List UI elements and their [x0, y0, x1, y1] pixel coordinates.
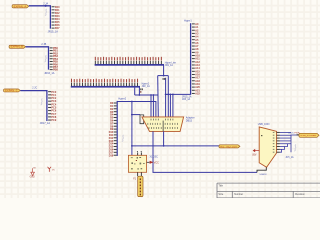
J8 pin number marks — [273, 132, 275, 153]
svg-text:Revision: Revision — [295, 193, 305, 196]
connector U2 left notch — [140, 115, 144, 124]
wire DB15 second pin down — [153, 131, 257, 172]
wires J8 to P5 — [280, 132, 299, 152]
wire drop p6 — [165, 78, 167, 117]
wire drop p4 — [157, 76, 160, 118]
no-ERC marker right — [294, 145, 296, 152]
port P4 — [219, 145, 240, 149]
power port U5V left of J8 — [255, 150, 259, 152]
U1 bottom pins — [136, 172, 139, 176]
wire P2 to J2 bus — [26, 47, 49, 70]
svg-text:VCC: VCC — [154, 161, 159, 164]
svg-text:JR2_1A: JR2_1A — [142, 85, 151, 88]
svg-text:A22: A22 — [195, 91, 200, 95]
wire drop p1 — [150, 95, 152, 117]
junction v2a — [167, 94, 169, 96]
wire drop p7 — [169, 94, 171, 117]
wire net H2 — [135, 94, 159, 96]
wire drop p2 — [152, 95, 154, 117]
header J5 body bar — [71, 86, 140, 88]
fuse F1 — [138, 176, 143, 196]
svg-text:GND: GND — [30, 177, 35, 179]
svg-text:X1 OSC: X1 OSC — [150, 156, 159, 158]
svg-text:RS_TXD_OUT: RS_TXD_OUT — [220, 146, 238, 148]
svg-text:JR17_1A: JR17_1A — [40, 122, 51, 125]
svg-text:Hyper2: Hyper2 — [118, 97, 126, 100]
port P3 — [4, 89, 21, 93]
oscillator U1 body — [128, 155, 146, 172]
title block — [217, 183, 320, 198]
port P5 — [299, 133, 319, 137]
header J2 pins — [50, 47, 59, 72]
junction w3a — [131, 145, 133, 147]
svg-text:Number: Number — [234, 193, 243, 196]
wire J6 bottom to bus — [166, 93, 191, 95]
wire J7 feeder down — [131, 102, 133, 156]
svg-text:U5V: U5V — [252, 154, 257, 156]
header J5 pins — [71, 79, 138, 86]
wire V2 — [167, 76, 169, 118]
svg-text:USB_POWER: USB_POWER — [300, 135, 316, 137]
wire net H1 — [158, 75, 169, 77]
svg-text:DB15: DB15 — [186, 119, 193, 122]
J8 pins — [277, 132, 280, 153]
J8 bottom pin bracket — [257, 167, 266, 172]
connector J8 body — [259, 127, 276, 167]
svg-text:Size: Size — [218, 193, 223, 196]
junction w3b — [163, 145, 165, 147]
svg-text:JR16_1A: JR16_1A — [44, 72, 55, 75]
svg-text:EXPAN_B: EXPAN_B — [11, 46, 24, 49]
wire P1 to J1 bus — [29, 6, 51, 29]
header J3 pins — [48, 91, 57, 122]
junction fb — [170, 94, 172, 96]
junction h2a — [139, 94, 141, 96]
header J1 pins — [52, 6, 61, 30]
svg-text:EXPAN_A: EXPAN_A — [14, 5, 27, 8]
junction h2b — [150, 94, 152, 96]
power port VCC right of U1 — [147, 161, 150, 164]
svg-text:JR3_1A: JR3_1A — [182, 98, 191, 101]
junction h2c — [153, 94, 155, 96]
connector J7 body bus — [117, 101, 118, 156]
svg-text:D18: D18 — [109, 154, 114, 157]
U1 top pins — [136, 152, 139, 155]
port P2 — [9, 45, 26, 49]
svg-text:EXPAN_C: EXPAN_C — [5, 89, 18, 92]
wire P3 to J3 bus — [20, 91, 47, 121]
header J4 pins — [95, 57, 162, 64]
wire osc net horizontal — [132, 145, 164, 147]
svg-text:VBUS: VBUS — [288, 132, 294, 134]
connector J6 body bus — [190, 23, 191, 95]
junction fc — [172, 94, 174, 96]
no-ERC marker — [45, 9, 47, 16]
power port GND — [31, 168, 35, 175]
svg-text:Title: Title — [218, 185, 223, 188]
wire DB15 bottom pin to port — [164, 131, 219, 146]
svg-text:JR1_1A: JR1_1A — [165, 64, 174, 67]
svg-text:2 JB: 2 JB — [41, 43, 46, 46]
svg-text:USB5V: USB5V — [260, 174, 268, 176]
no-ERC marker center — [122, 135, 124, 142]
svg-text:USB_CON: USB_CON — [258, 123, 270, 126]
connector U2 DB15 body — [142, 117, 184, 131]
no-ERC marker C — [41, 98, 43, 105]
net label marks — [163, 78, 164, 80]
junction j7a — [131, 101, 133, 103]
svg-text:2 JC: 2 JC — [32, 87, 37, 90]
svg-text:Hyper1: Hyper1 — [184, 20, 192, 23]
connector J7 pins — [109, 102, 117, 157]
header J4 body bar — [95, 64, 164, 66]
svg-text:JC5_1A: JC5_1A — [285, 156, 294, 159]
junction h1a — [163, 75, 165, 77]
wire D-row corner — [138, 87, 140, 95]
svg-text:PC9: PC9 — [51, 119, 56, 122]
connector J6 pins — [192, 22, 201, 96]
connector U2 pin marks — [148, 119, 178, 132]
junction A1 — [45, 5, 47, 7]
junction fa — [165, 94, 167, 96]
junction j7b — [131, 114, 133, 116]
wire to DB15 left pin — [132, 114, 140, 116]
U1 inner marks — [131, 157, 145, 170]
no-ERC marker B — [45, 55, 47, 62]
wire J7 top feeder — [117, 102, 156, 118]
svg-text:JR15_1A: JR15_1A — [48, 30, 59, 33]
svg-text:Hyper Line: Hyper Line — [165, 62, 177, 65]
wire D-row tap — [134, 88, 136, 95]
power port VCC2 — [48, 167, 52, 172]
port P1 — [12, 5, 29, 9]
wire E-row corner drop — [163, 65, 165, 76]
wire drop p8 — [172, 94, 174, 117]
